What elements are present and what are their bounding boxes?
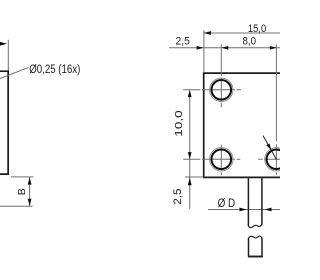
centreline column for lower-left hole — [220, 145, 222, 176]
svg-text:Ø0,25 (16x): Ø0,25 (16x) — [29, 62, 80, 76]
dimension B: dimension line — [29, 177, 31, 206]
leader arrowhead — [266, 144, 271, 151]
hole top-left: inner circle — [212, 80, 232, 100]
svg-text:2,5: 2,5 — [176, 36, 190, 48]
svg-text:2,5: 2,5 — [172, 189, 184, 205]
extension line at body bottom (left) — [185, 176, 204, 178]
dimension B: bottom extension line — [0, 205, 33, 207]
body outline (front view) — [204, 73, 280, 177]
svg-text:8,0: 8,0 — [243, 36, 257, 48]
centreline row 2 (horizontal, right part) — [258, 158, 280, 160]
svg-text:15,0: 15,0 — [248, 23, 266, 35]
hole bottom-right: outer thread circle — [265, 148, 288, 171]
dimension 10,0: lower arrow — [188, 152, 192, 159]
dimension line y=47.8 (2,5 and 8,0) — [169, 47, 280, 49]
centreline row 1 (horizontal) — [183, 89, 241, 91]
dimension B: upper arrow — [28, 177, 32, 184]
svg-text:B: B — [16, 188, 28, 195]
centreline row 2 (horizontal, left part) — [183, 158, 240, 160]
hole bottom-left: inner circle — [212, 149, 232, 169]
dimension 10,0: upper arrow — [188, 90, 192, 97]
centreline column 1 (vertical) — [220, 44, 222, 107]
cable end segment: right edge — [261, 238, 263, 256]
svg-text:10,0: 10,0 — [173, 110, 185, 137]
hole top-left: outer thread circle — [210, 78, 233, 101]
dimension B: lower arrow — [28, 199, 32, 206]
dimension 15,0: line — [204, 32, 280, 34]
cable upper segment: left edge — [247, 178, 249, 226]
arrow at first hole centreline (8,0 left arrow) — [221, 46, 228, 50]
dimension 2,5 vertical: arrow at body bottom — [188, 178, 192, 186]
dimension 15,0: left arrow — [204, 31, 211, 35]
dimension ØD: left-pointing arrow — [265, 208, 272, 212]
arrow at body edge (2,5 right arrow) — [197, 46, 204, 50]
dimension ØD: right-pointing arrow — [240, 208, 247, 212]
dimension ØD: line — [208, 209, 280, 211]
hole bottom-right: inner circle — [267, 149, 287, 169]
cable upper segment: break squiggle — [248, 225, 262, 228]
extension line, body left edge (top) — [203, 30, 205, 72]
dimension arrow (width dim, cropped) — [0, 42, 7, 46]
leader to bottom-right hole — [263, 136, 277, 160]
cable end segment: left edge — [248, 238, 250, 256]
extension line (top, side-view right edge) — [7, 40, 9, 71]
dimension 10,0: dimension line — [189, 90, 191, 159]
centreline column 2 (vertical, long) — [275, 44, 277, 175]
body outline (side view) — [0, 71, 8, 174]
hole bottom-left: outer thread circle — [210, 148, 233, 171]
cable upper segment: right edge — [261, 178, 263, 225]
cable end segment: bottom edge — [248, 256, 263, 258]
dimension 2,5 vertical: dimension line with tail — [189, 159, 191, 209]
arrow at second hole centreline (8,0 right arrow) — [270, 46, 277, 50]
svg-text:Ø D: Ø D — [218, 198, 236, 210]
cable end segment: break squiggle (top) — [249, 236, 263, 238]
dimension B: top extension line — [11, 176, 34, 178]
leader line for hole note — [0, 67, 29, 78]
